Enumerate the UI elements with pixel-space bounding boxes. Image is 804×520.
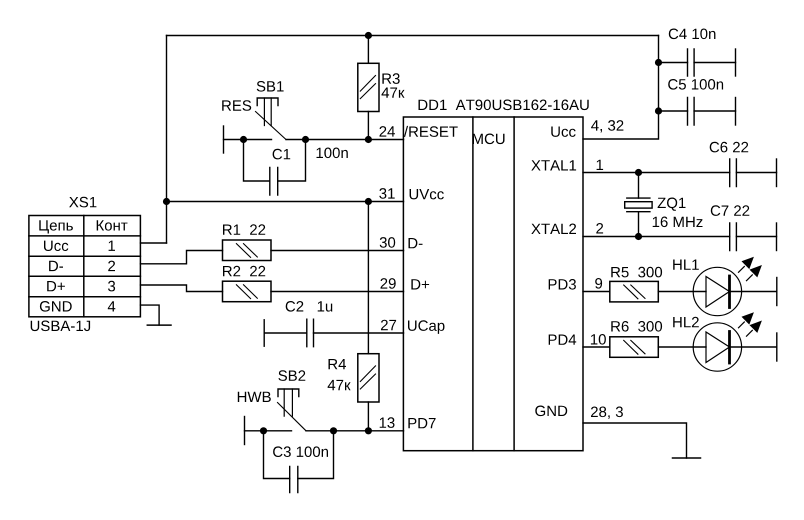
resistor R3 [358,36,379,140]
pin 4 XS1 [108,301,116,311]
wire XTAL1 line [583,172,730,174]
label HL1 [673,260,699,270]
label C5 100n [668,79,723,90]
wire PD7 line left segment with open terminal [245,417,292,445]
pin name GND [535,406,567,417]
MCU DD1 box [403,117,583,451]
ground XS1 [147,324,171,326]
node C3 left junction [260,427,267,434]
label R2 22 [223,266,265,277]
node R3 top rail junction [365,32,372,39]
pin number 31 [379,188,394,199]
pin name UCap [408,320,445,334]
label R4 [329,359,347,369]
wire PD4 to R6 [583,346,610,348]
pin number 27 [381,320,396,331]
resistor R6 [610,337,659,358]
pin name PD7 [408,418,435,428]
node R4 to PD7 junction [365,427,372,434]
resistor R2 [223,281,272,302]
label C6 22 [710,142,749,153]
capacitor C6 [730,159,777,187]
pin 3 XS1 [108,281,115,292]
terminal HL2 right [776,333,778,361]
resistor R5 [610,281,659,302]
value 47k R4 [328,380,351,390]
label table header Kont [97,220,128,230]
pin number 29 [381,278,396,289]
label C7 22 [711,205,750,216]
capacitor C7 [730,223,777,251]
pin number 30 [380,237,396,248]
value 47k R3 [382,88,405,98]
ground MCU [673,457,701,459]
capacitor C1 [244,140,306,196]
pin name XTAL1 [531,160,576,170]
pin name Ucc [551,127,575,137]
capacitor C5 [659,98,736,126]
pin number 10 [591,334,606,345]
node C5 junction [655,107,662,114]
label row Ucc [44,241,68,251]
pin name UVcc [410,189,444,199]
pin 2 XS1 [108,261,115,272]
wire HL2 to terminal [730,346,777,348]
wire XS1 pin3 to R2 [141,285,223,292]
pin name PD3 [549,279,576,290]
wire UVcc line pin31 [167,201,404,203]
wire R6 to HL2 [658,346,706,348]
wire XTAL2 line [583,236,730,238]
wire R2 to MCU pin29 [271,291,404,293]
value 16 MHz [653,217,703,228]
pin number 1 [597,160,604,170]
wire PD3 to R5 [583,291,610,293]
pin number 13 [380,417,395,428]
LED HL1 [693,257,762,316]
label MCU [473,134,505,145]
pin number 9 [595,278,602,289]
label R3 [382,73,399,84]
pin number 4, 32 [591,120,623,132]
label C4 10n [669,29,716,40]
resistor R1 [223,240,272,261]
wire R1 to MCU pin30 [271,250,404,252]
LED HL2 [693,312,762,371]
wire R5 to HL1 [658,291,706,293]
label R6 300 [611,321,662,332]
label row D+ [47,281,65,291]
pin name D+ [411,279,429,289]
node C1 left junction [240,136,247,143]
label table header Tsep [39,220,73,233]
pin number 2 [596,223,603,234]
value 100n C1 [317,148,348,159]
label SB2 [278,370,305,381]
wire GND pin to ground [583,423,687,458]
label SB1 [257,81,284,92]
wire pull-up vertical UVcc to R4 [367,202,369,354]
node ZQ1 bottom junction [635,233,642,240]
label ZQ1 [658,198,686,211]
capacitor C4 [659,49,736,76]
label R5 300 [611,267,662,278]
wire XS1 pin4 to ground [141,305,160,325]
node R3 to /RESET junction [365,136,372,143]
wire PD7 line right segment to MCU [306,430,404,432]
node pull-up junction on UVcc line [365,198,372,205]
node UVcc junction left [163,198,170,205]
label DD1 AT90USB162-16AU [419,100,589,111]
button SB1 [256,98,287,140]
node ZQ1 top junction [635,169,642,176]
pin number 28, 3 [591,407,623,419]
wire left vertical from rail to XS1 pin1 [166,36,168,244]
pin name XTAL2 [531,224,576,235]
wire /RESET line right segment to MCU [286,139,404,141]
node C1 right junction [302,136,309,143]
label row GND [40,301,72,312]
label XS1 [69,197,96,208]
label RES [222,100,251,111]
wire HL1 to terminal [730,291,777,293]
pin name D- [409,238,423,248]
wire top power rail [167,35,659,37]
label HWB [238,392,271,402]
wire XS1 pin1 stub [141,242,167,244]
pin number 24 [380,126,396,137]
pin name /RESET [404,126,458,137]
capacitor C3 [264,431,334,493]
wire Ucc pin to rail corner [583,36,659,140]
label C2 1u [286,301,333,312]
node C4 junction [655,59,662,66]
label C3 100n [273,446,328,457]
node C3 right junction [330,427,337,434]
wire XS1 pin2 to R1 [141,251,223,264]
pin name PD4 [549,335,577,345]
terminal HL1 right [776,278,778,306]
label row D- [49,261,63,271]
label C1 [273,149,291,160]
wire /RESET line left segment with open terminal [224,126,272,153]
crystal ZQ1 [625,173,652,237]
label USBA-1J [31,321,90,332]
resistor R4 [358,354,379,431]
pin 1 XS1 [109,241,115,251]
label R1 22 [223,224,265,235]
connector XS1 table [29,216,140,317]
button SB2 [278,389,307,431]
capacitor C2 with open terminal [264,319,403,347]
label HL2 [673,317,699,328]
